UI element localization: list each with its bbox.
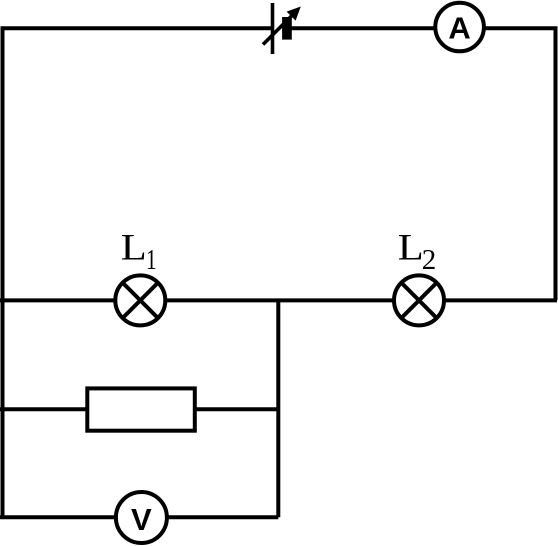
svg-text:L: L — [121, 226, 147, 268]
svg-text:2: 2 — [422, 244, 437, 276]
svg-text:A: A — [448, 10, 470, 45]
svg-text:V: V — [131, 502, 152, 537]
svg-text:L: L — [398, 226, 424, 268]
svg-text:1: 1 — [146, 244, 157, 276]
